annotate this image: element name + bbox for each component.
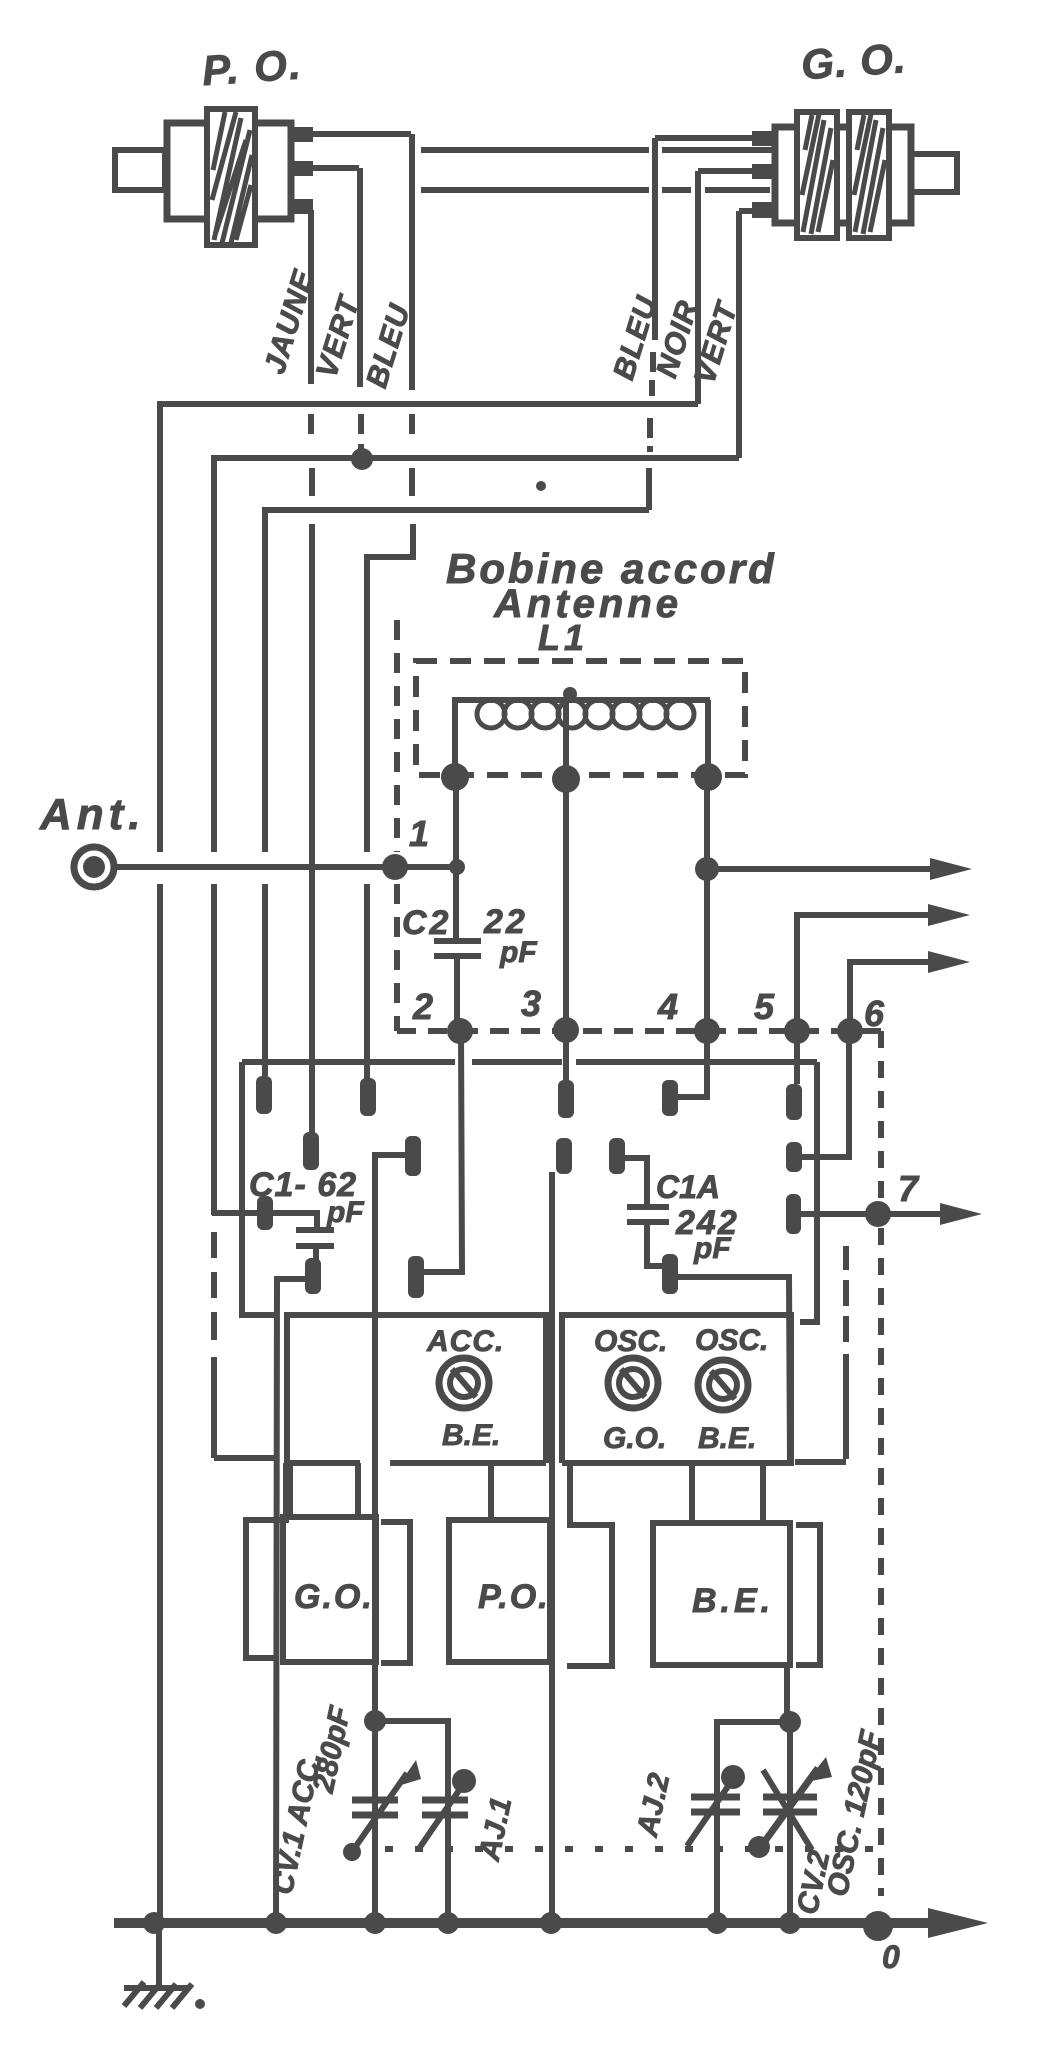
switch contact node7	[786, 1194, 801, 1234]
junction dot CV2 branch	[779, 1711, 801, 1733]
svg-text:0: 0	[882, 1939, 900, 1975]
junction dot bus x878 (large)	[863, 1911, 893, 1941]
switch contact S2a (x367)	[360, 1078, 376, 1116]
wire NOIR vertical	[695, 171, 701, 404]
switch contact S1b (JAUNE)	[303, 1132, 319, 1170]
wire BLEU-left vertical	[409, 134, 415, 390]
wire NOIR top run	[698, 168, 752, 174]
node dot 2	[447, 1018, 473, 1044]
switch contact node3 lower	[556, 1138, 572, 1174]
wire node7 horizontal	[801, 1211, 945, 1217]
bracket B.E. right	[796, 1525, 820, 1665]
wire x214 dashed below corner	[211, 1232, 217, 1340]
arrowhead node 7	[940, 1203, 982, 1225]
wire x214 lower part	[211, 884, 217, 1215]
terminal nub G.O. pin3	[752, 202, 775, 218]
svg-text:Ant.: Ant.	[39, 790, 146, 839]
node dot 6	[837, 1018, 863, 1044]
junction dot wire B / VERT-left	[351, 448, 373, 470]
svg-text:P. O.: P. O.	[201, 40, 304, 94]
junction dot bus x276	[265, 1912, 287, 1934]
coil former P.O. (shaft)	[115, 150, 165, 190]
ground symbol	[124, 1982, 205, 2009]
wire x817 lower segment	[800, 1157, 817, 1322]
node dot 7	[865, 1201, 891, 1227]
wire rail end down to y1157	[814, 1062, 820, 1157]
wire CV2 vertical	[787, 1722, 793, 1923]
svg-text:B.E.: B.E.	[692, 1582, 774, 1620]
dashed box L1	[416, 661, 745, 775]
svg-text:pF: pF	[326, 1196, 364, 1229]
svg-text:C1A: C1A	[656, 1169, 720, 1205]
wire C1A bottom lead	[647, 1222, 662, 1266]
wire rail left end down	[242, 1062, 277, 1315]
stub box A to G.O. box 1	[287, 1463, 293, 1517]
junction dot bus x372	[364, 1912, 386, 1934]
stray mark	[536, 481, 546, 491]
coil box B.E.	[653, 1523, 790, 1665]
wire VERT-left vertical	[357, 168, 363, 387]
switch contact C1-bottom	[305, 1258, 321, 1294]
svg-text:OSC.: OSC.	[695, 1324, 768, 1357]
stub box A to G.O. box 2	[355, 1463, 361, 1517]
bold dashed link x846	[795, 1246, 846, 1462]
terminal nub G.O. pin1	[752, 131, 775, 146]
stub box A to P.O. box	[488, 1463, 494, 1520]
capacitor C2	[434, 941, 481, 956]
wire B (horizontal y458)	[214, 458, 739, 852]
coil box P.O.	[449, 1520, 550, 1662]
wire BLEU-right vertical from G.O.	[652, 138, 658, 340]
arrowhead 1	[930, 858, 972, 880]
switch contact C1A-left	[609, 1138, 625, 1174]
svg-text:P.O.: P.O.	[478, 1578, 550, 1616]
switch contact node2	[408, 1256, 424, 1298]
bracket G.O. left	[246, 1463, 286, 1658]
wire JAUNE vertical	[308, 210, 314, 384]
junction dot bus x154	[143, 1912, 165, 1934]
capacitor C1A	[627, 1207, 669, 1222]
antenna terminal	[74, 847, 114, 887]
switch contact node3 upper	[558, 1080, 574, 1118]
inductor L1	[455, 687, 710, 777]
stub box B to B.E. box 1	[689, 1463, 695, 1523]
svg-text:7: 7	[898, 1168, 920, 1209]
wire C2 to node 2	[454, 959, 460, 1031]
coil former G.O. (winding cylinder 1)	[797, 112, 837, 238]
wire BLEU-right top run	[655, 135, 752, 141]
trimmer box A	[287, 1315, 546, 1463]
svg-text:OSC.: OSC.	[594, 1325, 667, 1358]
wire node4 to contact	[678, 1031, 707, 1097]
trimmer ACC/B.E.	[439, 1358, 489, 1408]
wire C1A contact to box B right edge	[678, 1277, 790, 1463]
wire node5 stub	[794, 1031, 800, 1084]
svg-text:4: 4	[657, 986, 678, 1027]
switch contact node5	[786, 1084, 802, 1120]
wire VERT-left top run	[310, 165, 359, 171]
switch contact S2b	[405, 1136, 421, 1176]
stub box B to P.O. bracket	[567, 1463, 573, 1525]
svg-text:1: 1	[409, 813, 429, 854]
bracket G.O. right	[381, 1522, 410, 1663]
svg-text:G. O.: G. O.	[800, 34, 908, 88]
node dot 4	[694, 1018, 720, 1044]
wire VERT-right vertical	[736, 211, 742, 458]
wire BLEU-right lower stub to wire C	[646, 468, 652, 510]
wire BLEU-left dashed crossing	[412, 414, 413, 530]
arrowhead bus	[928, 1908, 988, 1938]
svg-text:pF: pF	[693, 1232, 731, 1265]
svg-text:2: 2	[412, 986, 433, 1027]
node dot L1 center	[552, 765, 580, 793]
junction dot bus x448	[437, 1912, 459, 1934]
node dot 3	[553, 1017, 579, 1043]
wire contact S2b left and down x379	[375, 1155, 405, 1923]
dotted gang line	[385, 1846, 875, 1852]
capacitor C1	[296, 1230, 334, 1246]
junction dot node4 arrow branch	[695, 857, 719, 881]
terminal nub P.O. pin2	[291, 161, 313, 176]
wire CV2 branch to AJ2	[717, 1722, 790, 1923]
coil box G.O.	[283, 1517, 376, 1662]
wire BLEU-right dashed crossing	[650, 352, 653, 452]
junction dot bus x714	[706, 1912, 728, 1934]
wire node2 down to contact	[424, 1031, 462, 1272]
wire L1 left tap down to C2	[453, 777, 459, 938]
svg-text:C2: C2	[402, 904, 451, 942]
switch contact C1A-bottom	[662, 1254, 678, 1294]
wire VERT-left dashed crossing	[358, 414, 364, 456]
trimmer OSC/G.O.	[608, 1358, 658, 1408]
wire arrow 3 from node 6	[850, 962, 933, 1031]
svg-text:G.O.: G.O.	[603, 1422, 666, 1455]
stub box B to B.E. box 2	[760, 1463, 766, 1523]
junction dot antenna/C2 branch	[449, 859, 465, 875]
dashed enclosure left edge	[394, 620, 400, 1031]
terminal nub G.O. pin2	[752, 164, 775, 179]
wire A (horizontal y404)	[160, 404, 698, 852]
variable capacitor AJ.2	[687, 1765, 745, 1846]
svg-text:G.O.: G.O.	[294, 1578, 374, 1616]
wire BLEU-left top run	[310, 131, 411, 137]
wire ground stub	[156, 1923, 162, 1985]
long wire upper (P.O. to G.O.)	[421, 147, 775, 153]
switch contact node4	[662, 1080, 678, 1116]
svg-text:5: 5	[754, 986, 775, 1027]
coil former G.O. (winding cylinder 2)	[849, 112, 889, 238]
wire x214 corner to x276	[214, 1455, 276, 1461]
wire node6 down jog	[802, 1031, 849, 1157]
svg-text:3: 3	[521, 983, 541, 1024]
wire x265 into contact	[262, 884, 268, 1076]
wire C1 bottom contact to bus line	[276, 1279, 305, 1923]
long wire lower (P.O. to G.O.)	[421, 187, 770, 193]
switch contact S1a	[256, 1076, 272, 1114]
variable capacitor CV.2	[748, 1757, 832, 1858]
wire CV1 branch to AJ1	[375, 1721, 448, 1923]
terminal nub P.O. pin1	[291, 127, 313, 142]
wire y1213 run to C1	[212, 1213, 317, 1230]
wire B.E. box down	[784, 1665, 790, 1722]
switch top rail	[242, 1059, 817, 1065]
coil former G.O. (shaft)	[911, 154, 957, 192]
coil former G.O. (body)	[775, 127, 911, 223]
variable capacitor CV1	[343, 1760, 421, 1861]
switch contact node6-row2	[786, 1142, 802, 1172]
svg-text:6: 6	[864, 993, 885, 1034]
node dot L1 left	[441, 763, 469, 791]
wire L1 right tap down to node 4	[704, 777, 710, 1031]
junction dot CV1 branch	[364, 1710, 386, 1732]
node dot L1 right	[694, 763, 722, 791]
wire VERT-right top run	[739, 208, 752, 214]
wire far-left vertical lower part	[157, 884, 163, 1923]
coil former P.O. (body)	[167, 123, 291, 219]
terminal nub P.O. pin3	[291, 199, 313, 214]
svg-text:pF: pF	[499, 936, 537, 969]
wire antenna to node 1	[113, 864, 457, 870]
svg-text:L1: L1	[538, 617, 588, 658]
wire to C1 top plate	[211, 1357, 217, 1458]
svg-text:B.E.: B.E.	[442, 1419, 500, 1452]
dashed node row	[397, 1028, 881, 1034]
coil former P.O. (winding cylinder)	[207, 109, 255, 245]
junction dot bus x787	[779, 1912, 801, 1934]
trimmer OSC/B.E.	[698, 1360, 748, 1410]
wire L1 center tap	[563, 700, 569, 1030]
switch contact C1-top	[257, 1196, 273, 1230]
arrowhead 2	[928, 904, 970, 926]
bracket P.O. right	[567, 1525, 612, 1666]
wire JAUNE dashed crossing	[311, 414, 312, 560]
svg-text:ACC.: ACC.	[426, 1325, 504, 1358]
wire C1 bottom to contact	[313, 1246, 319, 1262]
wire contact to C1A top	[625, 1158, 647, 1204]
svg-text:B.E.: B.E.	[698, 1422, 756, 1455]
arrowhead 3	[928, 951, 970, 973]
wire JAUNE lower vertical	[309, 560, 315, 1136]
wire x551 down to bus	[549, 1172, 555, 1923]
node dot 5	[784, 1018, 810, 1044]
variable capacitor AJ.1	[418, 1769, 476, 1850]
wire node3 stub	[563, 1030, 569, 1080]
wire BLEU-left jog to x367	[367, 528, 413, 1082]
wire C (horizontal y510)	[265, 510, 649, 852]
node dot 1	[382, 854, 408, 880]
ground bus	[114, 1918, 935, 1928]
wire arrow 2 from node 5	[797, 915, 933, 1031]
dashed enclosure right edge	[878, 1031, 884, 1896]
junction dot bus x551	[540, 1912, 562, 1934]
wire arrow 1	[707, 866, 935, 872]
trimmer box B	[562, 1315, 791, 1463]
